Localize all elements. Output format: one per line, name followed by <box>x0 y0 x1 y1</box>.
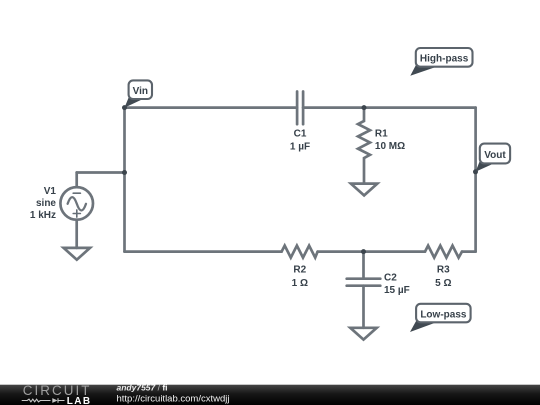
voltage source V1 <box>60 187 93 220</box>
node V1 junction dot <box>122 170 127 175</box>
ground for V1 <box>64 248 90 260</box>
node C2 junction dot <box>361 249 366 254</box>
svg-text:andy7557 / fi: andy7557 / fi <box>117 382 168 392</box>
svg-text:R3: R3 <box>437 265 450 276</box>
svg-text:15 µF: 15 µF <box>384 285 410 296</box>
svg-text:R2: R2 <box>293 265 306 276</box>
annotation High-pass <box>410 48 472 76</box>
svg-text:LAB: LAB <box>67 396 92 405</box>
svg-text:Low-pass: Low-pass <box>420 309 467 320</box>
annotation Low-pass <box>410 304 471 332</box>
wire C1 to top-right corner <box>303 106 476 109</box>
svg-text:10 MΩ: 10 MΩ <box>375 141 405 152</box>
label C1 value <box>290 128 310 152</box>
svg-text:Vout: Vout <box>484 150 506 161</box>
wire R3 to bottom-right corner <box>462 250 476 253</box>
logo CircuitLab <box>22 383 92 405</box>
label V1 value <box>30 186 57 221</box>
wire V1 bottom lead <box>75 220 78 248</box>
wire right side vertical <box>474 108 477 252</box>
label R1 value <box>375 128 405 152</box>
svg-text:1 µF: 1 µF <box>290 141 310 152</box>
footer text <box>117 382 230 404</box>
node Vin junction dot <box>122 105 127 110</box>
footer bar <box>0 385 540 405</box>
node R1 junction dot <box>362 105 367 110</box>
capacitor C2 <box>347 252 381 328</box>
svg-text:1 Ω: 1 Ω <box>292 278 308 289</box>
resistor R1 <box>358 108 370 184</box>
label C2 value <box>384 273 410 296</box>
label R3 value <box>435 265 451 289</box>
node Vout junction dot <box>473 169 478 174</box>
svg-text:Vin: Vin <box>133 86 148 97</box>
capacitor C1 <box>297 92 303 125</box>
label R2 value <box>292 265 308 289</box>
ground for R1 <box>351 184 377 196</box>
node flag Vout <box>476 144 511 172</box>
svg-text:5 Ω: 5 Ω <box>435 278 451 289</box>
svg-text:High-pass: High-pass <box>420 54 469 65</box>
svg-text:R1: R1 <box>375 128 388 139</box>
wire top-left to C1 <box>125 106 298 109</box>
svg-text:sine: sine <box>36 198 56 209</box>
svg-text:V1: V1 <box>44 186 57 197</box>
wire left side vertical <box>123 108 126 252</box>
svg-text:http://circuitlab.com/cxtwdjj: http://circuitlab.com/cxtwdjj <box>117 394 230 405</box>
wire bottom-left to R2 <box>125 250 282 253</box>
ground for C2 <box>350 328 376 340</box>
wire R2 to R3 <box>318 250 425 253</box>
svg-text:C1: C1 <box>294 128 307 139</box>
svg-text:C2: C2 <box>384 273 397 284</box>
resistor R2 <box>282 246 318 258</box>
wire V1 top lead <box>75 173 78 188</box>
wire V1 to left vertical <box>77 171 125 174</box>
node flag Vin <box>125 80 153 107</box>
resistor R3 <box>425 246 462 258</box>
svg-text:1 kHz: 1 kHz <box>30 210 56 221</box>
